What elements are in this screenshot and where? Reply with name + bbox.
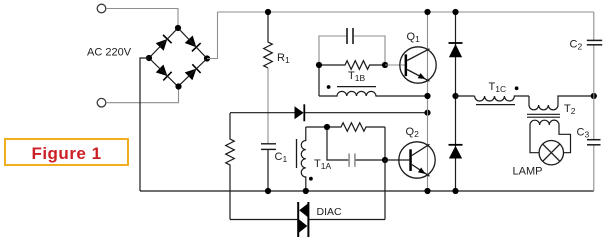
transformer winding T1B	[319, 91, 428, 96]
node diode vertical bottom rail	[452, 188, 458, 194]
inductor T1C	[475, 96, 529, 101]
inductor T1C core	[476, 104, 515, 106]
wire diac loop left	[230, 219, 297, 221]
node C1 bottom rail	[265, 188, 271, 194]
node Q2 base	[382, 157, 388, 163]
node R1 top rail	[265, 9, 271, 15]
resistor R3 (Q1 base RC)	[319, 61, 385, 70]
svg-text:DIAC: DIAC	[317, 206, 343, 218]
node Q1 RC left	[316, 62, 322, 68]
node diode vertical top rail	[452, 9, 458, 15]
bridge rectifier diode D-BR	[185, 64, 201, 80]
transformer winding T1B core	[337, 86, 376, 88]
node bridge bottom	[175, 83, 181, 89]
svg-text:AC 220V: AC 220V	[87, 47, 132, 59]
wire R1 bottom to C1 top	[267, 68, 269, 144]
terminal top-left	[97, 4, 106, 13]
figure caption text	[4, 138, 129, 166]
diode D7 (lower freewheel)	[449, 145, 463, 159]
node T1A bottom rail	[303, 188, 309, 194]
transformer T2 secondary winding	[530, 120, 559, 125]
wire lamp loop right	[559, 125, 571, 153]
wire C1 bottom to rail	[267, 149, 269, 191]
transformer winding T1A	[301, 127, 306, 191]
wire cap branch right	[356, 159, 385, 161]
bridge rectifier diode D-BL	[156, 64, 172, 80]
svg-text:C2: C2	[570, 39, 583, 52]
wire bridge right node jog to top rail	[207, 12, 218, 59]
wire lamp loop left	[530, 125, 539, 153]
node bridge right	[204, 55, 210, 61]
wire top rail	[218, 11, 594, 13]
node Q1 base	[382, 62, 388, 68]
svg-text:C1: C1	[275, 151, 288, 164]
node bridge top	[175, 25, 181, 31]
resistor R1	[264, 12, 273, 68]
wire bridge left node to bottom rail	[140, 58, 149, 191]
wire bottom terminal to bridge bottom	[106, 87, 179, 103]
wire Q1 base node to base	[385, 64, 405, 66]
capacitor C3	[587, 140, 601, 145]
node T1A RC left	[324, 124, 330, 130]
svg-text:T2: T2	[564, 103, 576, 116]
svg-text:LAMP: LAMP	[513, 166, 543, 178]
node half-bridge top rail	[424, 9, 430, 15]
svg-text:R1: R1	[277, 52, 290, 65]
transformer T2 primary winding	[529, 96, 594, 110]
resistor R2 (left trigger resistor)	[226, 113, 235, 220]
capacitor C4 (Q1 base)	[347, 28, 353, 44]
bridge rectifier diode D-TR	[185, 35, 201, 51]
diode D5 (horizontal)	[295, 104, 305, 121]
capacitor C1	[261, 144, 276, 150]
wire diac loop right	[309, 219, 385, 221]
bridge rectifier diode D-TL	[156, 35, 172, 51]
wire T1C line from node	[456, 95, 475, 97]
transistor Q2	[399, 142, 435, 178]
svg-text:C3: C3	[577, 127, 590, 140]
svg-text:Q1: Q1	[407, 31, 421, 44]
capacitor C5 (Q2 base)	[349, 153, 355, 166]
wire diode cathode to half-bridge midpoint	[305, 112, 428, 114]
wire Q1 RC cap branch right	[354, 36, 385, 65]
wire top terminal to bridge top	[106, 9, 178, 29]
wire fast-diode vertical	[455, 12, 457, 191]
node diode vertical T1C line	[452, 93, 458, 99]
bridge diamond wires	[149, 28, 207, 87]
phase dot T1B	[327, 85, 331, 89]
transistor Q1	[400, 47, 436, 83]
wire right rail	[593, 12, 595, 191]
wire half-bridge vertical	[427, 12, 429, 191]
svg-text:T1C: T1C	[489, 81, 507, 94]
svg-text:T1B: T1B	[348, 70, 365, 83]
node bridge left	[146, 55, 152, 61]
node half-bridge bottom rail	[424, 188, 430, 194]
wire Q2 base node to base	[385, 159, 409, 161]
lamp	[539, 141, 563, 165]
wire RC right corner down	[384, 127, 386, 160]
node T2 right rail	[591, 93, 597, 99]
phase dot T1A	[309, 177, 313, 181]
wire Q1 RC cap branch	[319, 36, 346, 65]
figure caption box	[4, 138, 129, 166]
wire T1A top to RC node	[306, 126, 327, 128]
terminal bottom-left	[97, 98, 106, 107]
wire RC cap branch left	[327, 127, 348, 160]
wire trigger line y=112.7	[230, 112, 295, 114]
wire Q2 base node down to diac	[384, 160, 386, 220]
resistor R4 (Q2 base RC)	[327, 123, 385, 132]
svg-text:Q2: Q2	[406, 126, 420, 139]
transformer T2 core	[527, 114, 560, 117]
wire T1B left node down to coil	[318, 65, 320, 96]
transformer winding T1A core	[296, 139, 298, 168]
DIAC	[298, 202, 308, 237]
diode D6 (upper freewheel)	[449, 43, 463, 57]
node half-bridge T1C line	[424, 93, 430, 99]
wire bottom rail	[140, 190, 594, 192]
node midpoint diode line	[424, 110, 430, 116]
capacitor C2	[587, 40, 602, 44]
phase dot T1C	[515, 86, 519, 90]
